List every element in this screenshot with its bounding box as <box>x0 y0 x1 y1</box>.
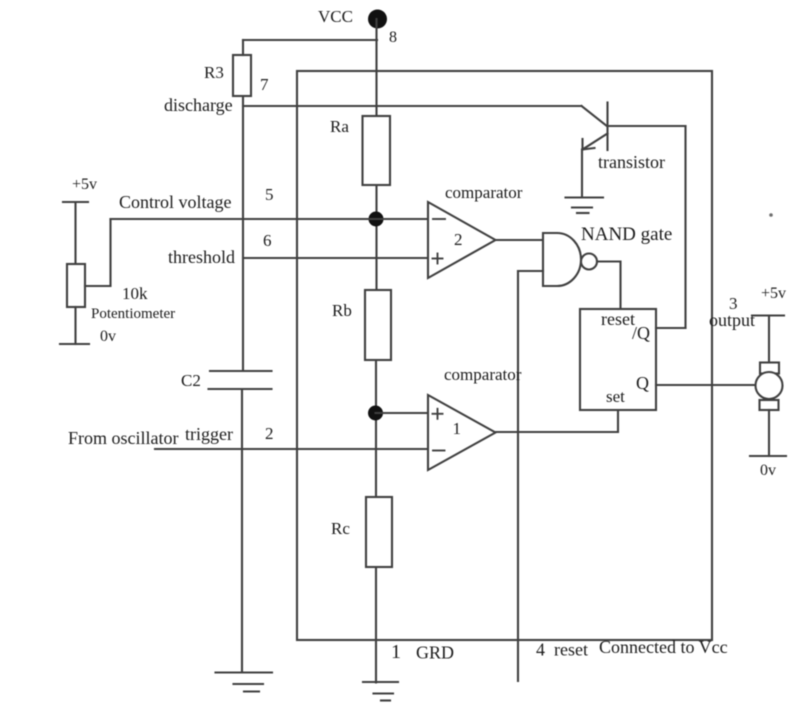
emitter diagonal <box>583 134 608 150</box>
resistor Rc <box>366 497 392 567</box>
svg-text:8: 8 <box>389 29 397 46</box>
svg-text:5: 5 <box>265 185 274 204</box>
ground below C2 <box>216 673 273 692</box>
emitter arrowhead <box>581 139 583 150</box>
plus sign comparator 1 <box>433 409 443 419</box>
resistor Rb <box>365 290 391 360</box>
svg-text:discharge: discharge <box>164 95 233 115</box>
wire threshold line (pin 6) <box>243 257 427 259</box>
output device (buzzer/motor M1) <box>756 363 783 411</box>
NAND gate U2 <box>543 233 581 286</box>
collector diagonal <box>582 106 608 127</box>
wire comparator 2 output to NAND input <box>495 239 543 241</box>
wire trigger line (pin 2) <box>155 448 428 450</box>
IC boundary box <box>297 71 712 640</box>
resistor Ra <box>363 116 391 185</box>
ground below Rc <box>363 682 398 701</box>
svg-text:trigger: trigger <box>185 424 233 444</box>
svg-text:/Q: /Q <box>632 323 650 343</box>
wire potentiometer wiper <box>85 219 111 286</box>
power 0v left <box>60 343 89 345</box>
wire R3 bottom / discharge-threshold vertical to C2 <box>242 96 244 371</box>
svg-text:Connected to Vcc: Connected to Vcc <box>599 637 728 657</box>
svg-text:2: 2 <box>265 424 274 443</box>
wire node B to comparator 1 plus input <box>376 412 429 414</box>
wire NAND second input from reset line <box>518 270 543 272</box>
svg-text:4 reset: 4 reset <box>536 640 588 660</box>
svg-text:1: 1 <box>453 419 462 438</box>
resistor R3 <box>233 55 251 96</box>
node B divider lower junction <box>368 406 383 421</box>
power +5v right <box>752 314 784 316</box>
svg-text:transistor: transistor <box>598 152 665 172</box>
wire transistor base to /Q <box>608 125 686 127</box>
svg-text:comparator: comparator <box>445 183 523 202</box>
wire control voltage line (pin 5) <box>111 218 428 220</box>
wire C2 bottom to ground <box>241 389 243 672</box>
op-amp comparator 1 <box>428 395 496 470</box>
minus sign comparator 1 <box>433 450 445 452</box>
wire Rc bottom to ground (pin 1) <box>375 567 377 683</box>
base bar <box>606 103 608 151</box>
svg-text:Potentiometer: Potentiometer <box>91 306 175 322</box>
svg-text:+5v: +5v <box>72 176 97 193</box>
wire NAND output to flip-flop reset <box>597 262 621 310</box>
node A divider upper junction <box>369 212 384 227</box>
svg-text:VCC: VCC <box>318 7 353 26</box>
wire comparator 1 output to set <box>495 410 618 432</box>
wire +5v to output device <box>768 316 770 362</box>
svg-text:Control voltage: Control voltage <box>119 192 231 212</box>
wire transistor emitter to ground <box>581 150 583 198</box>
svg-text:1: 1 <box>391 641 401 663</box>
NAND bubble <box>581 254 597 270</box>
svg-text:comparator: comparator <box>444 365 522 384</box>
capacitor C2 <box>209 371 272 389</box>
svg-text:10k: 10k <box>122 284 148 303</box>
svg-text:Q: Q <box>636 373 649 393</box>
svg-text:0v: 0v <box>100 328 116 345</box>
svg-text:output: output <box>709 310 755 330</box>
plus sign comparator 2 <box>433 254 443 264</box>
svg-text:7: 7 <box>260 75 269 94</box>
wire /Q output <box>656 327 686 329</box>
svg-text:R3: R3 <box>204 63 224 82</box>
svg-text:NAND gate: NAND gate <box>581 224 672 245</box>
transistor Q1 <box>582 103 608 151</box>
power 0v right <box>750 455 786 457</box>
stray mark <box>769 213 773 217</box>
wire VCC feed to R3 top <box>243 39 377 41</box>
svg-text:GRD: GRD <box>416 643 454 663</box>
svg-text:+5v: +5v <box>761 285 786 302</box>
svg-text:0v: 0v <box>760 462 776 479</box>
power +5v left <box>63 201 88 203</box>
svg-text:6: 6 <box>263 231 272 250</box>
svg-text:2: 2 <box>454 230 463 249</box>
svg-text:set: set <box>606 387 625 406</box>
minus sign comparator 2 <box>433 218 445 220</box>
node VCC (pin 8) <box>368 10 387 29</box>
wire Q output (pin 3) to output device <box>656 384 756 386</box>
wire R3 top lead <box>242 40 244 55</box>
svg-text:C2: C2 <box>181 371 201 390</box>
op-amp comparator 2 <box>428 202 496 278</box>
wire +5v to potentiometer top <box>74 202 76 264</box>
svg-text:Rc: Rc <box>331 519 350 538</box>
wire reset (pin 4) vertical <box>517 271 519 681</box>
wire discharge line (pin 7) to transistor collector <box>243 105 582 107</box>
svg-text:Rb: Rb <box>332 301 352 320</box>
wire Rb bottom to Rc top <box>375 360 377 497</box>
wire Ra bottom to Rb top <box>375 185 377 290</box>
wire /Q riser <box>684 126 686 328</box>
potentiometer 10k <box>67 264 85 307</box>
svg-text:Ra: Ra <box>330 117 349 136</box>
svg-text:reset: reset <box>601 309 635 329</box>
wire output device to 0v <box>768 410 770 456</box>
ground below transistor <box>566 198 604 214</box>
wire potentiometer bottom to 0v <box>74 307 76 344</box>
flip-flop U3 <box>580 309 656 410</box>
wire VCC vertical down to Ra <box>375 19 377 116</box>
svg-text:threshold: threshold <box>168 247 235 267</box>
svg-text:From oscillator: From oscillator <box>68 428 179 448</box>
